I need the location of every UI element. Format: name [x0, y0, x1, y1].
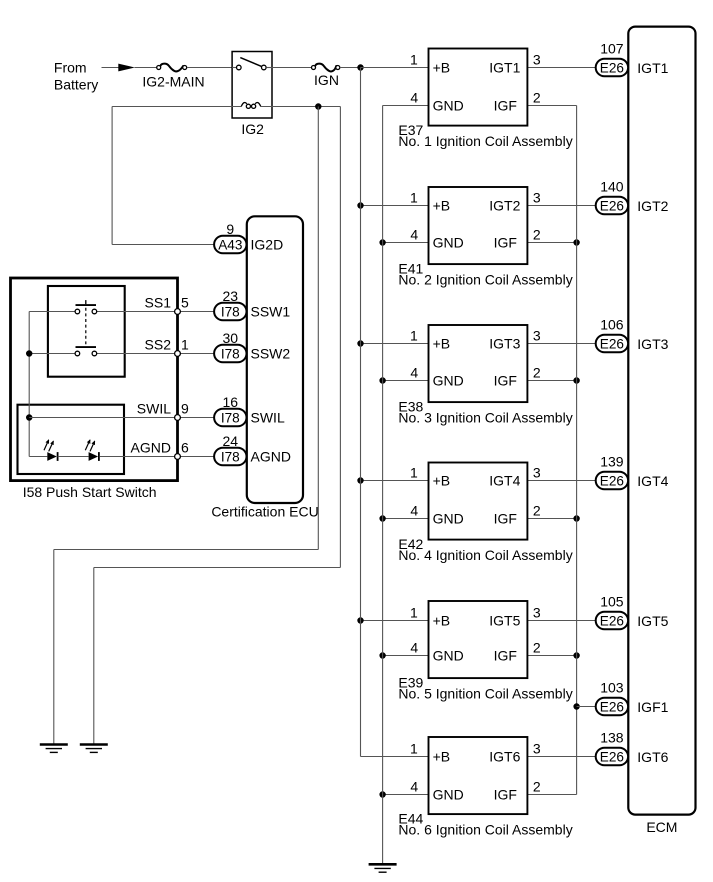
svg-text:E26: E26: [600, 199, 624, 214]
svg-text:IGF: IGF: [494, 511, 517, 527]
svg-text:5: 5: [181, 295, 189, 311]
svg-text:No. 2 Ignition Coil Assembly: No. 2 Ignition Coil Assembly: [398, 272, 572, 288]
svg-text:No. 4 Ignition Coil Assembly: No. 4 Ignition Coil Assembly: [398, 547, 572, 563]
svg-text:IGF: IGF: [494, 373, 517, 389]
svg-text:1: 1: [410, 740, 418, 756]
svg-text:IGT6: IGT6: [637, 749, 668, 765]
svg-text:9: 9: [226, 221, 234, 237]
svg-text:E26: E26: [600, 614, 624, 629]
svg-text:SWIL: SWIL: [137, 401, 171, 417]
svg-text:IGF: IGF: [494, 98, 517, 114]
svg-text:1: 1: [181, 337, 189, 353]
svg-text:+B: +B: [433, 60, 451, 76]
svg-text:IGT5: IGT5: [489, 613, 520, 629]
svg-text:3: 3: [533, 740, 541, 756]
svg-text:24: 24: [223, 433, 239, 449]
svg-text:AGND: AGND: [131, 440, 171, 456]
svg-text:30: 30: [223, 330, 239, 346]
svg-text:139: 139: [600, 454, 624, 470]
svg-text:E26: E26: [600, 61, 624, 76]
svg-text:2: 2: [533, 639, 541, 655]
svg-text:1: 1: [410, 464, 418, 480]
svg-text:+B: +B: [433, 749, 451, 765]
svg-text:3: 3: [533, 604, 541, 620]
svg-text:From: From: [54, 59, 87, 75]
svg-text:+B: +B: [433, 613, 451, 629]
svg-text:4: 4: [410, 364, 418, 380]
svg-text:A43: A43: [218, 238, 242, 253]
svg-text:E26: E26: [600, 474, 624, 489]
svg-text:9: 9: [181, 401, 189, 417]
svg-text:3: 3: [533, 327, 541, 343]
svg-text:SSW2: SSW2: [251, 346, 291, 362]
svg-text:2: 2: [533, 778, 541, 794]
svg-text:IGT4: IGT4: [637, 473, 668, 489]
svg-text:I78: I78: [221, 347, 240, 362]
svg-text:140: 140: [600, 179, 624, 195]
svg-text:2: 2: [533, 89, 541, 105]
svg-text:1: 1: [410, 327, 418, 343]
svg-text:GND: GND: [433, 511, 464, 527]
svg-text:IGT3: IGT3: [637, 336, 668, 352]
svg-text:I78: I78: [221, 411, 240, 426]
svg-text:IGT5: IGT5: [637, 613, 668, 629]
svg-text:No. 1 Ignition Coil Assembly: No. 1 Ignition Coil Assembly: [398, 133, 572, 149]
svg-text:3: 3: [533, 51, 541, 67]
svg-text:1: 1: [410, 604, 418, 620]
svg-text:I78: I78: [221, 450, 240, 465]
svg-text:138: 138: [600, 730, 624, 746]
svg-text:GND: GND: [433, 98, 464, 114]
svg-text:23: 23: [223, 288, 239, 304]
svg-text:+B: +B: [433, 473, 451, 489]
svg-text:SS2: SS2: [145, 337, 172, 353]
svg-text:I58 Push Start Switch: I58 Push Start Switch: [23, 484, 157, 500]
svg-text:ECM: ECM: [646, 819, 677, 835]
svg-text:SWIL: SWIL: [251, 410, 285, 426]
svg-text:E26: E26: [600, 750, 624, 765]
svg-text:IGF1: IGF1: [637, 699, 668, 715]
svg-text:2: 2: [533, 226, 541, 242]
svg-text:IGN: IGN: [314, 72, 339, 88]
svg-text:+B: +B: [433, 336, 451, 352]
svg-text:GND: GND: [433, 373, 464, 389]
svg-text:2: 2: [533, 502, 541, 518]
svg-text:1: 1: [410, 51, 418, 67]
svg-text:IG2-MAIN: IG2-MAIN: [142, 74, 204, 90]
svg-text:No. 5 Ignition Coil Assembly: No. 5 Ignition Coil Assembly: [398, 686, 572, 702]
svg-text:IG2D: IG2D: [251, 237, 284, 253]
svg-text:105: 105: [600, 594, 624, 610]
svg-text:GND: GND: [433, 787, 464, 803]
svg-text:4: 4: [410, 89, 418, 105]
svg-text:6: 6: [181, 440, 189, 456]
svg-text:4: 4: [410, 502, 418, 518]
svg-text:No. 6 Ignition Coil Assembly: No. 6 Ignition Coil Assembly: [398, 822, 572, 838]
svg-text:I78: I78: [221, 305, 240, 320]
svg-text:IGF: IGF: [494, 787, 517, 803]
svg-text:IGT1: IGT1: [489, 60, 520, 76]
svg-text:SSW1: SSW1: [251, 304, 291, 320]
svg-text:IGT2: IGT2: [489, 198, 520, 214]
svg-text:103: 103: [600, 680, 624, 696]
svg-text:4: 4: [410, 226, 418, 242]
svg-text:107: 107: [600, 41, 624, 57]
svg-text:No. 3 Ignition Coil Assembly: No. 3 Ignition Coil Assembly: [398, 410, 572, 426]
svg-text:AGND: AGND: [251, 449, 291, 465]
svg-text:IGT2: IGT2: [637, 198, 668, 214]
svg-text:16: 16: [223, 394, 239, 410]
svg-text:1: 1: [410, 189, 418, 205]
svg-text:4: 4: [410, 778, 418, 794]
svg-text:E26: E26: [600, 700, 624, 715]
svg-text:106: 106: [600, 317, 624, 333]
svg-text:+B: +B: [433, 198, 451, 214]
svg-text:2: 2: [533, 364, 541, 380]
svg-text:IGF: IGF: [494, 648, 517, 664]
svg-text:Certification ECU: Certification ECU: [211, 504, 318, 520]
svg-text:Battery: Battery: [54, 76, 98, 92]
svg-text:GND: GND: [433, 235, 464, 251]
svg-text:3: 3: [533, 464, 541, 480]
svg-text:IGF: IGF: [494, 235, 517, 251]
svg-text:IG2: IG2: [241, 121, 264, 137]
svg-text:IGT1: IGT1: [637, 60, 668, 76]
svg-text:IGT6: IGT6: [489, 749, 520, 765]
svg-text:GND: GND: [433, 648, 464, 664]
svg-text:IGT3: IGT3: [489, 336, 520, 352]
svg-text:SS1: SS1: [145, 295, 172, 311]
svg-text:4: 4: [410, 639, 418, 655]
svg-text:E26: E26: [600, 337, 624, 352]
svg-text:3: 3: [533, 189, 541, 205]
svg-text:IGT4: IGT4: [489, 473, 520, 489]
